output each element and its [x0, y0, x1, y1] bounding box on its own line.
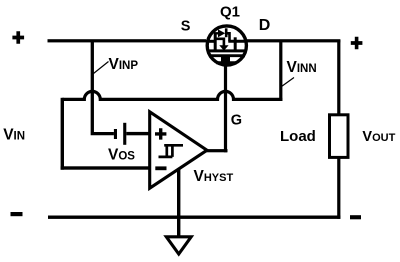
svg-text:S: S	[181, 19, 191, 35]
svg-text:VOUT: VOUT	[362, 129, 395, 145]
Q1 drain contact plate	[234, 37, 237, 50]
ground	[166, 237, 191, 254]
wire bottom rail	[48, 216, 340, 219]
Q1 internal source wire	[206, 40, 214, 43]
svg-text:D: D	[259, 17, 271, 34]
Q1 gate tee bar	[216, 61, 237, 64]
svg-text:G: G	[231, 113, 242, 129]
wire top rail right (Q1 drain to output corner)	[247, 39, 341, 42]
plus terminal left	[12, 31, 24, 44]
U1 triangle body	[150, 112, 207, 188]
Q1 body-diode cathode bar	[225, 28, 228, 37]
wire gate	[224, 63, 227, 152]
Q1 body arrow	[219, 45, 228, 51]
wire comparator output	[206, 149, 228, 152]
leader line VINP	[94, 62, 109, 74]
minus terminal left	[11, 212, 23, 216]
resistor Load	[330, 115, 349, 158]
Q1 gate electrode chord	[210, 54, 245, 57]
U1 hysteresis glyph	[159, 145, 184, 157]
Q1 body diode	[218, 29, 225, 37]
Q1 body-diode anode wire	[214, 32, 218, 34]
wire output column bottom	[337, 157, 340, 218]
wire VINP tap (source sense)	[92, 40, 114, 134]
wire inverting input	[61, 166, 150, 169]
Q1 cathode drop wire	[226, 33, 229, 41]
wire noninverting input	[126, 132, 150, 135]
leader line VINN	[282, 78, 295, 87]
svg-text:Q1: Q1	[220, 3, 240, 20]
minus terminal right	[350, 215, 361, 219]
wire comparator ground pin	[177, 169, 180, 237]
wire top rail left (input to Q1 source)	[48, 39, 207, 42]
U1 plus input glyph	[155, 128, 166, 139]
plus terminal right	[351, 37, 363, 50]
wire VINN tap (drain sense)	[279, 40, 282, 101]
wire feedback (VINN to left branch, hops over gate and VINP lines)	[62, 91, 282, 99]
battery VOS positive plate	[123, 123, 126, 145]
svg-text:Load: Load	[280, 128, 316, 145]
Q1 body link wire	[215, 39, 224, 46]
wire output column top	[337, 40, 340, 115]
Q1 source contact plate	[214, 33, 217, 52]
Q1 body circle	[207, 26, 246, 65]
op-amp U1 comparator with hysteresis	[150, 112, 207, 188]
U1 minus input glyph	[155, 166, 166, 170]
Q1 internal drain wire	[228, 40, 247, 43]
battery VOS negative plate	[114, 129, 117, 139]
Q1 channel bar	[208, 49, 248, 52]
Q1 gate stem	[221, 56, 230, 63]
wire left branch down	[61, 98, 64, 170]
transistor Q1 (MOSFET in circle)	[206, 26, 248, 65]
